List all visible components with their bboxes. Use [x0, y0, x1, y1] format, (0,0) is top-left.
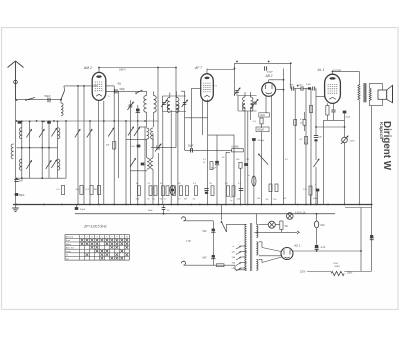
label — [148, 183, 152, 185]
wire — [207, 100, 209, 118]
coil osc0a — [144, 91, 147, 112]
wire — [29, 121, 31, 178]
wire — [316, 214, 318, 221]
wire — [41, 121, 43, 178]
wire — [113, 86, 115, 205]
svg-text:AZ 1: AZ 1 — [293, 244, 301, 248]
svg-text:5nF: 5nF — [203, 257, 208, 260]
divider resistor — [331, 263, 344, 276]
capacitor blob — [136, 109, 140, 113]
tap 110 — [232, 252, 247, 255]
wire — [162, 112, 164, 205]
wire — [261, 132, 263, 205]
electrolytic 4uF — [315, 245, 326, 250]
wire — [175, 91, 177, 97]
electrolytic 30uF — [75, 207, 86, 211]
svg-text:ZF=128,5 kHz: ZF=128,5 kHz — [83, 224, 107, 228]
capacitor 5nF — [14, 180, 23, 183]
wire — [233, 135, 235, 205]
capacitor 13,5pF — [299, 85, 304, 91]
wire — [185, 149, 208, 151]
wire — [208, 149, 232, 151]
capacitor 4nF — [252, 138, 265, 142]
wire — [344, 114, 346, 121]
wire — [370, 83, 383, 90]
wire — [152, 169, 154, 204]
svg-text:1250: 1250 — [333, 263, 339, 265]
wire — [345, 207, 372, 209]
wire — [83, 86, 85, 205]
wire — [212, 221, 214, 265]
tube AZ1 — [281, 244, 301, 260]
wire — [118, 91, 120, 178]
wire — [76, 205, 78, 208]
switch — [135, 90, 142, 94]
capacitor C blob — [47, 121, 51, 124]
wire — [315, 167, 317, 205]
resistor Rb0 — [136, 186, 141, 201]
svg-text:950pF: 950pF — [257, 129, 264, 132]
wire — [226, 151, 230, 153]
wire — [106, 90, 147, 92]
wire — [333, 103, 335, 109]
coil L4 — [58, 128, 60, 139]
speaker — [378, 85, 393, 102]
wire — [277, 89, 284, 91]
wire — [224, 265, 247, 270]
label — [136, 183, 139, 185]
resistor — [232, 186, 235, 196]
lamp — [287, 212, 306, 220]
component — [252, 176, 256, 187]
chassis bus — [13, 204, 372, 206]
transformer primary — [245, 224, 247, 270]
wire plate — [98, 68, 100, 73]
resistor Rb7 — [184, 186, 189, 201]
wire — [291, 88, 308, 90]
capacitor blob — [244, 163, 248, 166]
svg-text:50μF: 50μF — [346, 117, 351, 119]
capacitor blob — [211, 161, 219, 170]
wire — [333, 70, 360, 72]
wire — [234, 63, 236, 96]
trimmer — [46, 161, 51, 169]
resistor — [326, 106, 329, 116]
svg-text:5nF: 5nF — [203, 230, 208, 233]
wire — [137, 105, 139, 205]
trimmer — [39, 129, 44, 137]
trimmer cap — [161, 100, 167, 107]
OT primary — [358, 84, 360, 100]
wire — [206, 69, 208, 74]
label 1000pF — [333, 69, 342, 72]
wire — [216, 135, 218, 161]
capacitor 1nF — [314, 136, 323, 142]
IF1 coil right — [176, 98, 179, 110]
wire rect fil — [259, 242, 262, 248]
trimmer cap — [234, 88, 240, 96]
label 220V — [300, 272, 306, 274]
capacitor 5nF a — [203, 229, 216, 233]
tap 130 — [232, 257, 247, 260]
wire — [360, 208, 362, 272]
wire — [310, 89, 312, 205]
resistor 5ohm — [280, 221, 288, 230]
resistor Rb4 — [164, 186, 169, 201]
resistor R7 — [239, 162, 242, 168]
svg-text:5pF: 5pF — [290, 85, 294, 87]
svg-text:Tot: Tot — [66, 257, 69, 260]
wire — [371, 106, 373, 271]
wire — [344, 120, 346, 137]
trimmer — [314, 159, 320, 167]
lamp 2 — [268, 221, 275, 228]
wire — [146, 112, 148, 127]
wire — [250, 92, 252, 97]
tap 220 — [232, 268, 247, 271]
wire — [283, 69, 285, 205]
OT core — [364, 83, 366, 102]
resistor — [210, 162, 213, 170]
capacitor 50pF — [115, 88, 125, 93]
junction — [21, 121, 59, 180]
trimmer — [87, 129, 92, 137]
transformer secondary 1 — [256, 224, 258, 237]
wire — [310, 195, 312, 205]
label 150V — [347, 273, 353, 275]
wire lamp2 — [259, 224, 268, 226]
wire — [238, 95, 257, 97]
svg-text:1000pF: 1000pF — [333, 69, 342, 72]
svg-text:AM 2: AM 2 — [83, 66, 92, 70]
wire — [344, 271, 371, 273]
resistor R2 — [76, 186, 84, 195]
wire — [16, 99, 61, 101]
svg-text:2k: 2k — [147, 199, 149, 201]
svg-text:6,3V 0,1A: 6,3V 0,1A — [295, 212, 306, 215]
wire — [265, 96, 267, 113]
resistor R4 — [94, 186, 101, 195]
wire — [333, 113, 335, 121]
wire — [323, 120, 325, 204]
wire — [15, 100, 17, 205]
wire lamp loop top — [0, 0, 1, 1]
wire — [152, 139, 154, 158]
wire — [370, 99, 383, 105]
boxed label 2 — [256, 127, 269, 132]
svg-text:240 V: 240 V — [119, 68, 126, 72]
capacitor 5pF — [290, 85, 294, 91]
wire — [271, 96, 273, 204]
trimmer — [75, 129, 80, 137]
capacitor — [370, 235, 374, 240]
tube AF7 — [194, 66, 213, 101]
IF1 coil right lower — [176, 105, 179, 113]
wire — [332, 72, 334, 75]
trimmer arrow — [259, 154, 269, 165]
svg-text:50k: 50k — [136, 199, 139, 201]
table title — [83, 224, 107, 228]
wire — [144, 127, 146, 205]
wire — [0, 0, 1, 1]
IF1 coil left lower — [167, 105, 170, 113]
brand Dirigent W — [381, 121, 392, 171]
wire rect an — [259, 255, 282, 257]
wire lamp loop bottom — [254, 231, 299, 234]
wire — [261, 124, 263, 128]
wire — [268, 80, 270, 83]
svg-text:1M: 1M — [184, 199, 187, 201]
tube AM2 — [83, 66, 106, 100]
wire — [316, 228, 318, 245]
svg-text:600Ω: 600Ω — [335, 266, 341, 268]
resistor 1,2k — [0, 0, 1, 1]
wire — [77, 86, 79, 205]
wire — [326, 103, 328, 105]
wire — [253, 141, 255, 176]
wire — [316, 126, 345, 128]
capacitor C blob — [18, 121, 22, 124]
wire — [255, 214, 257, 225]
resistor — [303, 112, 306, 131]
wire — [21, 121, 23, 178]
electrolytic +50u — [313, 183, 319, 200]
trimmer cap — [182, 100, 188, 107]
fuse — [217, 264, 225, 267]
svg-text:50pF: 50pF — [19, 194, 25, 197]
svg-text:5nF: 5nF — [19, 180, 24, 183]
resistor — [300, 137, 308, 145]
OT secondary — [369, 88, 371, 101]
junction — [234, 62, 292, 90]
wire — [157, 68, 159, 146]
coil osc2b — [151, 158, 153, 169]
svg-text:30μF: 30μF — [148, 210, 153, 212]
tube AL1 — [317, 68, 341, 103]
wire — [216, 165, 218, 205]
ground — [12, 205, 19, 212]
junction — [315, 126, 345, 128]
trimmer — [108, 128, 114, 137]
svg-text:2k: 2k — [160, 183, 162, 185]
svg-text:30μF: 30μF — [80, 209, 86, 211]
wire — [163, 205, 165, 214]
IF2 coil left — [243, 97, 245, 108]
resistor Rb1 — [147, 186, 152, 201]
wire — [253, 187, 255, 205]
tap 150 — [232, 263, 247, 266]
trimmer — [134, 128, 140, 137]
wire — [0, 0, 1, 1]
capacitor padder — [155, 144, 161, 152]
wire — [316, 89, 325, 97]
wire — [269, 79, 284, 81]
wire cathode bottom — [324, 119, 345, 121]
wire — [106, 85, 114, 87]
wire — [57, 121, 59, 178]
capacitor 50pF — [188, 144, 194, 152]
label — [203, 159, 289, 202]
svg-text:1n: 1n — [164, 199, 166, 201]
wire rect an2 — [259, 257, 282, 263]
IF2 coil left lower — [243, 104, 245, 112]
svg-text:1,2k: 1,2k — [303, 189, 307, 191]
potentiometer 0,5M — [232, 146, 244, 152]
wire — [0, 0, 1, 1]
heater bus — [75, 213, 335, 215]
wire 240V bus — [99, 68, 176, 72]
wire — [326, 115, 328, 120]
svg-text:7 W: 7 W — [186, 239, 191, 243]
svg-text:5Ω: 5Ω — [285, 225, 288, 228]
resistor R1 — [57, 186, 65, 195]
capacitor — [148, 208, 170, 212]
resistor Rb8 — [193, 186, 198, 201]
trimmer cap — [252, 100, 258, 107]
wire — [240, 168, 242, 204]
resistor — [294, 120, 297, 126]
wire cathode — [293, 250, 361, 252]
svg-text:AL 1: AL 1 — [317, 68, 325, 72]
svg-text:1M: 1M — [246, 159, 249, 161]
wire — [235, 62, 291, 64]
wire — [247, 111, 249, 205]
wire — [169, 93, 171, 98]
wire — [170, 110, 172, 205]
svg-text:4 μF: 4 μF — [321, 246, 326, 249]
wire — [238, 110, 257, 112]
svg-text:1M: 1M — [283, 198, 286, 200]
svg-text:Bereich: Bereich — [66, 236, 74, 239]
wire — [316, 250, 318, 251]
capacitor 5nF b — [203, 255, 216, 259]
label — [225, 183, 229, 185]
trimmer — [26, 129, 31, 137]
wire — [162, 95, 186, 97]
capacitor 100pF — [265, 66, 274, 73]
capacitor 8nF — [314, 221, 325, 228]
wire — [0, 0, 1, 1]
svg-text:50pF: 50pF — [120, 88, 126, 91]
coil L5 — [58, 159, 60, 170]
resistor R5 — [106, 142, 116, 149]
wire — [175, 68, 177, 148]
wire — [262, 248, 281, 252]
resistor — [266, 184, 272, 201]
wire — [161, 96, 163, 112]
label — [178, 183, 181, 185]
switch mains — [221, 221, 227, 232]
IF1 coil left — [167, 98, 170, 110]
wire — [280, 230, 282, 233]
resistor — [211, 186, 214, 196]
wire — [244, 92, 246, 97]
svg-text:8nF: 8nF — [321, 224, 326, 227]
wire — [305, 142, 307, 205]
capacitor — [204, 189, 208, 194]
wire — [185, 117, 208, 119]
wire — [65, 121, 67, 178]
svg-text:Tr: Tr — [108, 96, 110, 98]
coil L2 — [19, 128, 21, 139]
tap ~0 — [232, 246, 247, 249]
trimmer — [51, 160, 56, 168]
wire — [307, 271, 331, 273]
wire — [358, 71, 360, 84]
wire — [146, 139, 148, 158]
wire — [184, 220, 214, 222]
wire — [0, 0, 1, 1]
wire — [184, 264, 217, 266]
wire — [158, 153, 160, 205]
coil osc0b — [154, 91, 157, 112]
coil osc1a — [147, 128, 149, 139]
resistor Rb6 — [178, 186, 183, 201]
svg-text:200V: 200V — [347, 273, 353, 275]
wire — [0, 0, 1, 1]
wire HT bottom — [0, 0, 1, 1]
svg-text:Mittel: Mittel — [66, 243, 72, 246]
trimmer — [26, 161, 31, 169]
transformer secondary 3 — [256, 259, 258, 270]
wire — [305, 89, 307, 144]
capacitor — [237, 189, 243, 201]
IF2 coil right lower — [251, 104, 253, 112]
wire — [221, 205, 223, 221]
resistor — [309, 106, 312, 113]
mains terminal 1 — [182, 217, 186, 221]
wire — [162, 111, 186, 113]
label — [210, 183, 213, 185]
wire — [152, 133, 154, 148]
wire — [344, 143, 346, 205]
wire — [181, 90, 185, 92]
tone pot — [341, 136, 355, 144]
wire — [192, 87, 201, 89]
wire — [98, 100, 100, 204]
wire — [208, 134, 234, 136]
wire grid — [64, 85, 98, 87]
wire — [0, 0, 1, 1]
electrolytic — [343, 111, 351, 119]
resistor R6 — [260, 118, 263, 124]
wire top loop — [207, 69, 235, 71]
resistor Rb3 — [160, 186, 165, 201]
wire — [17, 177, 67, 179]
resistor — [273, 184, 278, 201]
wire — [207, 118, 209, 205]
svg-text:50k: 50k — [257, 198, 260, 200]
svg-text:1nF: 1nF — [131, 146, 135, 148]
coil L1 — [61, 100, 63, 116]
resistor Rb2 — [152, 186, 157, 201]
wire — [315, 142, 317, 161]
wire — [244, 107, 246, 204]
coil osc1b — [151, 128, 153, 139]
capacitor — [331, 110, 335, 112]
capacitor blob — [141, 163, 145, 166]
label — [213, 86, 218, 88]
wire — [227, 223, 247, 225]
mains terminal 2 — [182, 261, 186, 265]
wire — [250, 107, 252, 120]
boxed label — [259, 113, 270, 117]
wire — [151, 147, 163, 149]
label — [193, 183, 197, 185]
wire — [237, 96, 239, 112]
junction dots misc — [16, 61, 334, 180]
wire — [0, 0, 1, 1]
